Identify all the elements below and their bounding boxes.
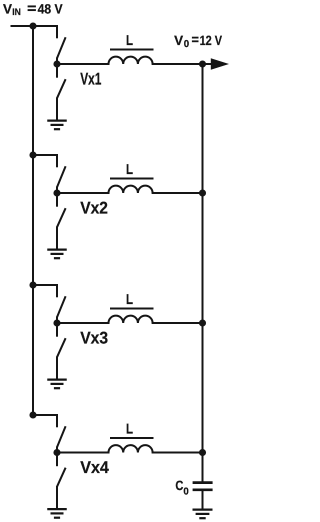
wire top switch contact stub phase 4 [56, 414, 58, 427]
node output-rail junction phase 2 [199, 189, 206, 196]
svg-text:Vx4: Vx4 [80, 458, 109, 477]
inductor L phase 2 coil [109, 186, 153, 193]
svg-text:Vx2: Vx2 [80, 198, 108, 217]
wire blade to switching node phase 3 [56, 317, 58, 324]
wire phase 3 branch from input rail [33, 284, 57, 286]
wire bottom switch to ground phase 4 [56, 486, 58, 509]
node Vx1 switching node [53, 60, 60, 67]
switch S3B bottom blade (open) [57, 338, 66, 357]
node Vx3 switching node [53, 319, 60, 326]
wire phase 2 branch from input rail [33, 154, 57, 156]
wire bottom switch contact stub phase 2 [56, 193, 58, 207]
wire inductor to output rail phase 1 [152, 63, 203, 65]
svg-text:Vx3: Vx3 [80, 328, 108, 347]
node input-rail junction phase 3 [29, 281, 36, 288]
inductor L phase 3 core bar [110, 308, 154, 310]
svg-text:V: V [174, 33, 183, 48]
node input-rail junction phase 1 [29, 22, 36, 29]
svg-text:12 V: 12 V [200, 33, 223, 48]
wire VIN left rail vertical [32, 26, 34, 415]
wire VIN input horizontal [11, 25, 58, 27]
wire bottom switch contact stub phase 4 [56, 453, 58, 467]
wire switching node to inductor phase 3 [57, 322, 110, 324]
wire inductor to output rail phase 3 [152, 322, 203, 324]
switch S1A top blade (open) [57, 37, 66, 58]
switch S3A top blade (open) [57, 296, 66, 317]
wire blade to switching node phase 1 [56, 58, 58, 65]
switch S4B bottom blade (open) [57, 468, 66, 487]
svg-text:C: C [175, 478, 183, 493]
wire phase 4 branch from input rail [33, 414, 57, 416]
wire switching node to inductor phase 4 [57, 452, 110, 454]
wire bottom switch contact stub phase 1 [56, 64, 58, 78]
switch S2B bottom blade (open) [57, 208, 66, 227]
node output-rail junction phase 4 [199, 449, 206, 456]
wire inductor to output rail phase 2 [152, 192, 203, 194]
wire switching node to inductor phase 1 [57, 63, 110, 65]
switch S1B bottom blade (open) [57, 79, 66, 98]
node Vx2 switching node [53, 189, 60, 196]
ground phase 2 [47, 249, 67, 251]
wire blade to switching node phase 2 [56, 187, 58, 194]
svg-text:L: L [126, 292, 133, 308]
arrow output VO [211, 58, 229, 69]
inductor L phase 1 core bar [110, 49, 154, 51]
wire VOUT right rail vertical [202, 64, 204, 482]
wire capacitor to ground [202, 491, 204, 509]
ground output [193, 509, 213, 511]
wire switching node to inductor phase 2 [57, 192, 110, 194]
wire bottom switch contact stub phase 3 [56, 323, 58, 337]
wire top switch contact stub phase 2 [56, 154, 58, 167]
wire inductor to output rail phase 4 [152, 452, 203, 454]
svg-text:0: 0 [183, 486, 189, 497]
svg-text:IN: IN [12, 7, 21, 18]
inductor L phase 4 coil [109, 445, 153, 452]
node output-rail junction phase 1 [199, 60, 206, 67]
wire bottom switch to ground phase 1 [56, 98, 58, 121]
ground phase 3 [47, 379, 67, 381]
wire bottom switch to ground phase 2 [56, 227, 58, 250]
wire bottom switch to ground phase 3 [56, 357, 58, 380]
wire top switch contact stub phase 3 [56, 284, 58, 297]
node Vx4 switching node [53, 449, 60, 456]
svg-text:L: L [126, 33, 133, 49]
node output-rail junction phase 3 [199, 319, 206, 326]
wire output node to arrow [203, 63, 213, 65]
node input-rail junction phase 4 [29, 411, 36, 418]
svg-text:Vx1: Vx1 [80, 69, 101, 88]
inductor L phase 4 core bar [110, 437, 154, 439]
inductor L phase 2 core bar [110, 178, 154, 180]
inductor L phase 3 coil [109, 316, 153, 323]
svg-text:L: L [126, 162, 133, 178]
wire top switch contact stub phase 1 [56, 25, 58, 38]
ground phase 1 [47, 119, 67, 121]
capacitor C0 top plate [193, 481, 213, 484]
node input-rail junction phase 2 [29, 151, 36, 158]
svg-text:L: L [126, 422, 133, 438]
capacitor C0 bottom plate [193, 488, 213, 491]
ground phase 4 [47, 508, 67, 510]
inductor L phase 1 coil [109, 57, 153, 64]
svg-text:0: 0 [184, 39, 190, 50]
switch S4A top blade (open) [57, 426, 66, 447]
svg-text:V: V [3, 2, 12, 17]
switch S2A top blade (open) [57, 166, 66, 187]
svg-text:48 V: 48 V [38, 2, 63, 17]
wire blade to switching node phase 4 [56, 447, 58, 453]
